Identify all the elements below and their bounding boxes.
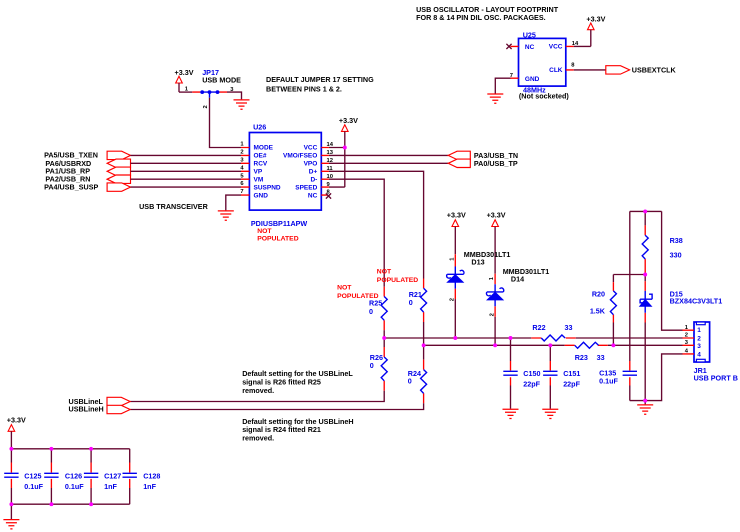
jumper JP17 (185, 68, 241, 109)
svg-text:OE#: OE# (254, 153, 267, 160)
port PA1/USB_RP (45, 167, 130, 176)
svg-text:1: 1 (240, 142, 244, 148)
svg-text:POPULATED: POPULATED (257, 236, 299, 243)
svg-text:CLK: CLK (549, 67, 563, 74)
svg-text:330: 330 (670, 250, 682, 259)
power +3.3V (U26) (339, 116, 358, 187)
capacitor C151 (543, 345, 580, 408)
svg-text:+3.3V: +3.3V (175, 68, 194, 77)
note USBLineL default (242, 369, 353, 395)
capacitor C126 (44, 449, 84, 504)
node bottom rail ground junction (643, 399, 647, 403)
svg-text:C150: C150 (523, 369, 540, 378)
svg-text:R22: R22 (532, 323, 545, 332)
ground (cap bank) (3, 520, 19, 529)
svg-text:USB MODE: USB MODE (202, 76, 241, 85)
svg-text:C125: C125 (24, 472, 41, 481)
svg-text:NC: NC (525, 44, 535, 51)
resistor R26 (370, 338, 387, 391)
svg-text:0: 0 (409, 298, 413, 307)
svg-text:USB PORT B: USB PORT B (694, 373, 738, 382)
power +3.3V (JP17) (175, 68, 194, 92)
port PA4/USB_SUSP (44, 182, 130, 191)
svg-text:PDIUSBP11APW: PDIUSBP11APW (251, 219, 308, 228)
svg-text:DEFAULT JUMPER 17 SETTING: DEFAULT JUMPER 17 SETTING (266, 75, 374, 84)
wire cap bank bottom rail (11, 503, 129, 505)
wire R26 to USBLineL (130, 391, 384, 402)
svg-text:VP: VP (254, 169, 263, 176)
port PA5/USB_TXEN (44, 151, 130, 160)
node R20 bottom junction (611, 343, 615, 347)
ground (U26) (218, 211, 234, 220)
svg-text:PA4/USB_SUSP: PA4/USB_SUSP (44, 182, 98, 191)
svg-text:U26: U26 (253, 122, 266, 131)
node D14 junction (493, 343, 497, 347)
oscillator U25 (510, 31, 579, 101)
svg-text:1nF: 1nF (143, 482, 156, 491)
svg-text:NC: NC (308, 192, 318, 199)
svg-text:33: 33 (565, 323, 573, 332)
resistor R24 (408, 345, 427, 403)
op IC U26 PDIUSBP11APW (240, 122, 333, 242)
svg-text:NOT: NOT (257, 228, 272, 235)
wire D- bus (384, 337, 682, 339)
svg-text:MODE: MODE (254, 145, 274, 152)
port PA0/USB_TP (448, 159, 518, 168)
svg-text:22pF: 22pF (523, 380, 540, 389)
svg-text:2: 2 (240, 150, 243, 156)
wire D14 to D+ bus (494, 317, 496, 345)
svg-text:1.5K: 1.5K (590, 307, 606, 316)
resistor R20 (590, 275, 617, 346)
ground (bottom rail) (637, 405, 653, 414)
wire ground stem (cap bank) (10, 504, 12, 519)
wire D13 to D- bus (454, 299, 456, 338)
power +3.3V (D14) (487, 211, 506, 274)
svg-text:4: 4 (697, 351, 701, 358)
wire D- pin10 down (329, 179, 384, 287)
svg-text:4: 4 (240, 165, 244, 171)
svg-text:FOR 8 & 14 PIN DIL OSC. PACKAG: FOR 8 & 14 PIN DIL OSC. PACKAGES. (416, 13, 546, 22)
svg-text:0.1uF: 0.1uF (599, 376, 618, 385)
resistor R25 (not populated) (337, 285, 387, 331)
svg-text:BZX84C3V3LT1: BZX84C3V3LT1 (670, 297, 723, 306)
svg-text:1nF: 1nF (104, 482, 117, 491)
svg-text:0: 0 (370, 361, 374, 370)
wire OE# (131, 154, 242, 156)
wire cap bank top rail (11, 448, 129, 450)
svg-text:C127: C127 (104, 472, 121, 481)
capacitor C127 (84, 449, 121, 504)
svg-text:D13: D13 (471, 257, 484, 266)
node cap rail junction (89, 447, 93, 451)
port USBEXTCLK (606, 65, 677, 74)
svg-text:removed.: removed. (242, 434, 274, 443)
svg-text:D+: D+ (309, 169, 318, 176)
wire JP17 pin3 to ground (227, 92, 242, 99)
wire R25 to D- bus node (383, 330, 385, 338)
svg-text:R20: R20 (592, 290, 605, 299)
note jumper setting (266, 75, 374, 94)
power +3.3V (D13) (447, 211, 466, 255)
wire JR1 pin4 to bottom rail (630, 354, 683, 401)
capacitor C125 (4, 449, 43, 504)
wire R24 to USBLineH (130, 403, 424, 409)
wire VCC pin14 to +3.3V (329, 147, 345, 149)
wire D+ bus (424, 344, 683, 346)
svg-text:+3.3V: +3.3V (586, 15, 605, 24)
svg-text:SUSPND: SUSPND (254, 184, 281, 191)
svg-text:0.1uF: 0.1uF (65, 482, 84, 491)
wire ground stem (644, 401, 646, 405)
no-connect X on U25 pin 1 (506, 44, 511, 49)
wire JP17 pin2 to U26 MODE (210, 98, 242, 148)
svg-text:NOT: NOT (377, 268, 392, 275)
ground (C151) (542, 409, 558, 418)
svg-text:D-: D- (310, 177, 317, 184)
wire (179, 91, 192, 93)
zener D15 BZX84C3V3LT1 (640, 275, 723, 401)
svg-text:0.1uF: 0.1uF (24, 482, 43, 491)
node C150 junction (509, 336, 513, 340)
resistor R21 (not populated) (377, 268, 427, 322)
ground (C150) (503, 409, 519, 418)
svg-text:USBLineH: USBLineH (69, 405, 104, 414)
svg-text:0: 0 (369, 307, 373, 316)
resistor R23 (565, 342, 608, 362)
wire VMO/FSEO to PA3 (329, 154, 448, 156)
title note (416, 5, 559, 22)
node VBUS rail junction (643, 209, 647, 213)
svg-text:PA0/USB_TP: PA0/USB_TP (474, 159, 518, 168)
power +3.3V (U25) (586, 15, 605, 30)
svg-text:2: 2 (685, 333, 688, 339)
capacitor C135 (599, 211, 637, 400)
svg-text:1: 1 (489, 276, 495, 280)
svg-text:+3.3V: +3.3V (339, 116, 358, 125)
svg-text:(Not socketed): (Not socketed) (519, 92, 570, 101)
node VCC junction (343, 146, 347, 150)
svg-text:7: 7 (240, 189, 243, 195)
svg-text:VM: VM (254, 177, 264, 184)
svg-text:+3.3V: +3.3V (447, 211, 466, 220)
wire VP (131, 170, 242, 172)
note USBLineH default (242, 417, 353, 443)
ground (JP17) (234, 100, 250, 109)
node R38 bottom junction (643, 273, 647, 277)
svg-text:removed.: removed. (242, 386, 274, 395)
diode D13 MMBD301LT1 (447, 250, 511, 302)
svg-text:VMO/FSEO: VMO/FSEO (283, 153, 317, 160)
svg-text:+3.3V: +3.3V (487, 211, 506, 220)
svg-text:RCV: RCV (254, 161, 268, 168)
svg-text:POPULATED: POPULATED (377, 277, 419, 284)
svg-text:+3.3V: +3.3V (7, 416, 26, 425)
wire GND pin7 to ground (226, 195, 241, 210)
svg-text:C151: C151 (563, 369, 580, 378)
svg-text:6: 6 (240, 181, 244, 187)
svg-text:GND: GND (525, 76, 540, 83)
node cap rail junction (89, 502, 93, 506)
svg-text:R38: R38 (670, 236, 683, 245)
wire SUSPND (131, 186, 242, 188)
wire U25 VCC (574, 30, 591, 47)
wire link to R20 (613, 274, 645, 276)
wire U25 CLK (574, 69, 606, 71)
node cap rail junction (9, 447, 13, 451)
no-connect X on U26 pin 8 (326, 193, 331, 198)
node D- bus left (382, 336, 386, 340)
ground (U25) (487, 94, 503, 103)
svg-text:5: 5 (240, 173, 244, 179)
svg-text:SPEED: SPEED (295, 184, 317, 191)
svg-text:USBEXTCLK: USBEXTCLK (632, 65, 677, 74)
port USBLineH (69, 405, 131, 414)
svg-text:R23: R23 (575, 353, 588, 362)
svg-text:3: 3 (697, 343, 701, 350)
node C151 junction (548, 343, 552, 347)
svg-text:USB TRANSCEIVER: USB TRANSCEIVER (139, 202, 208, 211)
port USBLineL (69, 397, 131, 406)
port PA2/USB_RN (45, 174, 130, 183)
wire D+ pin11 down (329, 171, 424, 278)
wire VBUS top rail (630, 210, 662, 212)
port PA3/USB_TN (448, 151, 518, 160)
svg-text:VCC: VCC (549, 44, 563, 51)
node cap rail junction (49, 447, 53, 451)
svg-text:C126: C126 (65, 472, 82, 481)
svg-text:GND: GND (254, 192, 269, 199)
svg-text:33: 33 (597, 353, 605, 362)
port PA6/USBRXD (45, 159, 130, 168)
svg-text:2: 2 (203, 105, 209, 108)
node cap rail junction (9, 502, 13, 506)
wire VM (131, 178, 242, 180)
svg-text:22pF: 22pF (563, 380, 580, 389)
wire RCV (131, 162, 242, 164)
svg-text:BETWEEN PINS 1 & 2.: BETWEEN PINS 1 & 2. (266, 85, 342, 94)
svg-text:3: 3 (240, 157, 244, 163)
wire SPEED pin9 to +3.3V (329, 186, 345, 188)
svg-text:VPO: VPO (304, 161, 318, 168)
svg-text:1: 1 (697, 327, 701, 334)
wire R21 down to D+ bus node (423, 322, 425, 345)
capacitor C128 (123, 449, 161, 504)
svg-text:VCC: VCC (304, 145, 318, 152)
connector JR1 USB PORT B (683, 322, 738, 382)
wire VPO to PA0 (329, 162, 448, 164)
svg-text:NOT: NOT (337, 285, 352, 292)
wire U25 GND to ground (495, 78, 510, 93)
svg-text:D14: D14 (511, 275, 524, 284)
node D13 junction (453, 336, 457, 340)
svg-text:2: 2 (697, 335, 701, 342)
svg-text:1: 1 (449, 257, 455, 261)
svg-text:0: 0 (408, 377, 412, 386)
svg-text:MMBD301LT1: MMBD301LT1 (503, 267, 550, 276)
wire VBUS to JR1 pin1 (662, 211, 683, 330)
node cap rail junction (49, 502, 53, 506)
svg-text:14: 14 (327, 142, 334, 148)
node D+ bus left (422, 343, 426, 347)
svg-text:8: 8 (571, 63, 575, 69)
capacitor C150 (503, 338, 540, 409)
resistor R22 (531, 323, 575, 341)
svg-text:C128: C128 (143, 472, 160, 481)
power +3.3V (cap bank) (7, 416, 26, 449)
diode D14 MMBD301LT1 (486, 267, 549, 317)
resistor R38 (642, 211, 683, 274)
